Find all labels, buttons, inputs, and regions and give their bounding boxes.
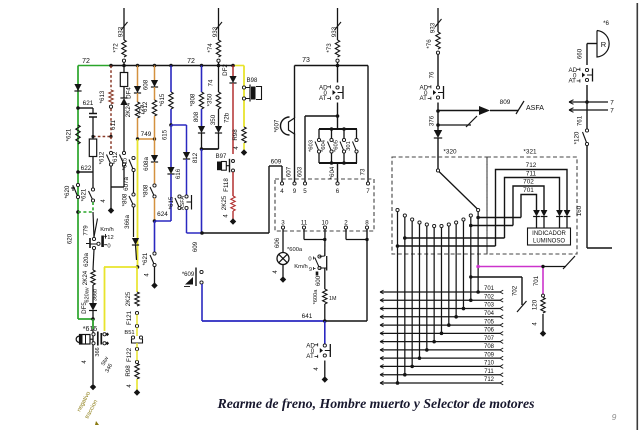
page border right edge xyxy=(636,3,638,430)
diode on 350 line xyxy=(215,126,222,133)
wire 712 loop xyxy=(496,170,568,247)
svg-text:F118: F118 xyxy=(223,178,230,192)
wire orange mid xyxy=(154,116,156,155)
svg-text:7: 7 xyxy=(610,100,614,107)
wire red 72b xyxy=(232,83,234,154)
svg-text:*621: *621 xyxy=(142,252,149,265)
relay contacts *603 *604 *605 301 xyxy=(318,129,320,139)
svg-text:ASFA: ASFA xyxy=(526,105,544,112)
svg-text:606: 606 xyxy=(274,237,281,248)
wire 8 down to 641 xyxy=(366,229,368,321)
wire orange to 624 xyxy=(154,198,156,221)
diode on 376 xyxy=(434,130,442,138)
svg-text:*603: *603 xyxy=(309,140,315,152)
wire 604 to terminal 6 xyxy=(337,163,339,182)
terminal 4 chain xyxy=(136,379,138,390)
svg-text:*74: *74 xyxy=(207,43,214,53)
svg-text:B51: B51 xyxy=(124,330,134,336)
terminal 5 xyxy=(303,182,306,185)
svg-text:R98: R98 xyxy=(232,129,239,141)
diode DF2 xyxy=(232,66,234,77)
svg-text:*350: *350 xyxy=(207,93,214,106)
svg-text:620: 620 xyxy=(67,233,74,244)
svg-text:301: 301 xyxy=(346,141,352,151)
svg-text:73: 73 xyxy=(360,168,367,175)
wire 660 xyxy=(587,43,597,45)
svg-text:622: 622 xyxy=(81,165,92,172)
svg-text:2K25: 2K25 xyxy=(125,291,132,306)
svg-text:616: 616 xyxy=(175,168,182,179)
contact *615 chain xyxy=(132,156,135,159)
wire below second *612 xyxy=(123,166,125,187)
svg-text:366: 366 xyxy=(95,347,101,356)
selector contact arc xyxy=(396,208,399,211)
wire 711 link xyxy=(405,237,505,239)
label 74 xyxy=(218,66,220,93)
svg-text:*612: *612 xyxy=(99,151,106,164)
box *321 dashed xyxy=(487,157,577,254)
contact *621 bottom xyxy=(153,252,156,255)
bell R xyxy=(597,31,609,58)
diode on 808 line xyxy=(198,126,205,133)
diode DF5 xyxy=(92,285,94,303)
diode DF4 up xyxy=(120,98,127,105)
svg-text:611: 611 xyxy=(110,120,117,130)
wire 621 branch xyxy=(78,107,93,109)
terminal 4 below lamp xyxy=(282,265,284,278)
node 621 xyxy=(76,106,80,110)
svg-text:707: 707 xyxy=(484,336,495,342)
svg-text:DF5: DF5 xyxy=(81,302,88,314)
svg-text:0: 0 xyxy=(107,243,110,249)
svg-text:*613: *613 xyxy=(99,90,106,103)
selector AD-0-AT asfa xyxy=(436,86,439,89)
svg-text:1M: 1M xyxy=(329,296,337,302)
svg-text:7: 7 xyxy=(610,108,614,115)
svg-text:701: 701 xyxy=(484,286,495,292)
svg-text:933: 933 xyxy=(430,22,437,33)
svg-text:609: 609 xyxy=(192,241,199,252)
svg-text:R: R xyxy=(601,40,607,49)
contact *120 xyxy=(585,129,588,132)
contact *612 second xyxy=(122,151,125,154)
wire 160 down xyxy=(586,146,588,249)
svg-text:2K24: 2K24 xyxy=(82,270,89,285)
wire blue B down xyxy=(186,210,188,234)
svg-text:712: 712 xyxy=(484,377,495,383)
wire green dashed below *621 xyxy=(92,202,94,212)
svg-text:DF4: DF4 xyxy=(126,87,133,99)
svg-text:Km/h: Km/h xyxy=(294,264,308,270)
svg-text:704: 704 xyxy=(484,311,495,317)
svg-text:615: 615 xyxy=(162,129,169,140)
svg-text:701: 701 xyxy=(523,187,534,194)
resistor 2K24 lower-left xyxy=(91,270,95,285)
svg-text:*6: *6 xyxy=(603,20,609,27)
terminal 4 xyxy=(280,182,283,185)
wire 712 link xyxy=(398,245,496,247)
diode 608 xyxy=(154,66,156,81)
svg-text:933: 933 xyxy=(331,26,338,37)
terminal 4 yellow xyxy=(243,143,245,150)
svg-text:603: 603 xyxy=(297,166,304,177)
wire *613 dashed brown xyxy=(110,66,112,91)
svg-text:*607: *607 xyxy=(274,119,281,132)
svg-text:*605: *605 xyxy=(334,140,340,152)
box *320 dashed xyxy=(392,157,487,254)
svg-text:F122: F122 xyxy=(126,347,133,362)
svg-text:*321: *321 xyxy=(523,149,537,156)
node 72 bus top xyxy=(78,65,111,67)
svg-text:B97: B97 xyxy=(216,154,227,160)
node 149 xyxy=(201,133,203,149)
svg-text:620av: 620av xyxy=(85,287,91,302)
diode on 366a chain xyxy=(132,238,139,245)
svg-text:2: 2 xyxy=(344,220,348,227)
wire yellow 366a vertical xyxy=(137,139,139,267)
selector AD-0-AT lower xyxy=(324,321,326,346)
svg-text:76: 76 xyxy=(429,71,436,78)
label 366a xyxy=(133,207,135,237)
wire orange to *808 contact xyxy=(154,162,156,184)
svg-text:*600a: *600a xyxy=(287,247,303,253)
svg-text:702: 702 xyxy=(512,285,519,296)
svg-text:73: 73 xyxy=(302,57,310,64)
svg-text:120: 120 xyxy=(532,299,539,310)
svg-text:*616: *616 xyxy=(83,326,98,333)
resistor *621 on green xyxy=(76,125,80,144)
wire black 702 branch xyxy=(471,276,522,278)
wire to node 7 lines xyxy=(586,85,588,129)
wire 701 link xyxy=(478,217,521,219)
wire 611 dashed xyxy=(110,109,112,137)
resistor *350 xyxy=(216,92,220,109)
wire 600 xyxy=(324,268,326,289)
resistor *76 riser 933 xyxy=(437,8,439,32)
svg-text:DF2: DF2 xyxy=(222,64,229,76)
wire orange to 749 node xyxy=(137,118,139,139)
svg-text:*620: *620 xyxy=(64,185,71,198)
node 624 xyxy=(153,219,157,223)
svg-text:609: 609 xyxy=(271,159,282,166)
resistor R98 yellow xyxy=(242,127,246,143)
svg-text:INDICADOR: INDICADOR xyxy=(532,231,566,237)
label 607a xyxy=(133,172,135,194)
selector wiper diagonal xyxy=(436,169,439,172)
svg-text:607a: 607a xyxy=(123,177,130,191)
resistor 2K24 72a xyxy=(137,93,139,102)
wire junction bar 187 xyxy=(111,186,124,188)
svg-text:0: 0 xyxy=(308,257,311,263)
contact *808 on orange xyxy=(153,184,156,187)
svg-text:11: 11 xyxy=(301,220,308,227)
svg-text:933: 933 xyxy=(212,26,219,37)
indicator luminoso box xyxy=(528,228,571,245)
svg-text:*621: *621 xyxy=(81,188,88,201)
svg-text:809: 809 xyxy=(500,99,511,106)
svg-text:*615: *615 xyxy=(159,93,166,106)
svg-text:3: 3 xyxy=(281,220,285,227)
node green join 616 xyxy=(78,318,93,320)
contact *612 first xyxy=(109,151,112,154)
contact *620 xyxy=(76,183,79,186)
contact *615 ASFA xyxy=(178,195,181,198)
diode on 137 line xyxy=(137,66,139,87)
node yellow 267 xyxy=(136,265,140,269)
terminal 4 magenta xyxy=(542,314,544,331)
lamp *600a xyxy=(277,253,289,265)
resistor *72 riser to 933 xyxy=(123,8,125,40)
svg-text:706: 706 xyxy=(484,328,495,334)
svg-text:*76: *76 xyxy=(426,39,433,49)
wire 337 down xyxy=(337,103,339,130)
relay bank top bar xyxy=(319,128,357,130)
wire yellow 641 area horizontal xyxy=(104,266,138,268)
wire red F118 xyxy=(232,172,234,196)
terminal 4 red xyxy=(232,211,234,219)
wire bar 149 to 218 xyxy=(202,148,219,150)
svg-text:710: 710 xyxy=(484,361,495,367)
resistor 2K25 on red xyxy=(231,196,235,211)
diode 616 xyxy=(183,152,190,159)
diode 608a xyxy=(151,155,158,162)
resistor *613 xyxy=(109,90,113,104)
resistor *612 on 608 line xyxy=(154,87,156,100)
svg-text:712: 712 xyxy=(526,162,537,169)
svg-text:*615: *615 xyxy=(168,196,175,209)
svg-text:701: 701 xyxy=(533,275,540,286)
node 233 xyxy=(200,231,204,235)
wire dashed to contact *612 xyxy=(110,137,112,152)
svg-text:*808: *808 xyxy=(122,193,129,206)
svg-text:366a: 366a xyxy=(124,215,131,229)
svg-text:160: 160 xyxy=(576,205,583,216)
node on green below *620 xyxy=(76,210,80,214)
svg-text:*808: *808 xyxy=(143,184,150,197)
diode on green line top xyxy=(74,84,81,91)
svg-text:*621: *621 xyxy=(66,128,73,141)
wire 603 down xyxy=(304,116,306,182)
wire blue down from 624 xyxy=(154,221,156,252)
svg-text:608: 608 xyxy=(143,79,150,90)
svg-text:2K24: 2K24 xyxy=(125,102,132,117)
resistor *74 riser to 933 xyxy=(218,8,220,40)
svg-text:*615: *615 xyxy=(122,157,129,170)
svg-text:2K25: 2K25 xyxy=(221,195,228,210)
svg-text:621: 621 xyxy=(83,100,94,107)
svg-text:808: 808 xyxy=(193,111,200,122)
svg-text:812: 812 xyxy=(192,152,199,163)
wire 10 down xyxy=(324,229,326,256)
wire to contact *612 second xyxy=(123,105,125,152)
svg-text:779: 779 xyxy=(83,225,90,236)
node 622 xyxy=(76,170,80,174)
wire black 233 to 609 corner xyxy=(202,232,269,234)
selector AD-0-AT right xyxy=(585,68,588,71)
svg-text:9: 9 xyxy=(309,267,312,273)
svg-text:7: 7 xyxy=(366,188,370,195)
node 749 xyxy=(138,138,155,140)
wire 73 to terminal 7 xyxy=(367,66,369,183)
svg-text:B98: B98 xyxy=(247,78,258,84)
svg-text:AT: AT xyxy=(319,95,327,102)
svg-text:*808: *808 xyxy=(190,93,197,106)
resistor R98 lower xyxy=(135,364,139,380)
svg-text:9: 9 xyxy=(612,412,617,422)
wire green dashed to *621 contact xyxy=(78,211,93,213)
wire yellow B98 xyxy=(243,66,245,128)
svg-text:LUMINOSO: LUMINOSO xyxy=(533,239,565,245)
svg-text:705: 705 xyxy=(484,319,495,325)
contact *808 chain xyxy=(132,193,135,196)
svg-text:5: 5 xyxy=(303,188,307,195)
diodes into indicator xyxy=(533,210,540,217)
terminal 4 bottom xyxy=(324,361,326,378)
svg-text:72b: 72b xyxy=(224,112,231,123)
svg-text:72: 72 xyxy=(82,58,90,65)
svg-text:608a: 608a xyxy=(143,157,150,171)
wire 2 jog xyxy=(345,229,347,240)
wire horizontal 125 xyxy=(171,124,187,126)
svg-text:620a: 620a xyxy=(83,253,90,267)
resistor *600a xyxy=(323,289,327,304)
svg-text:624: 624 xyxy=(157,211,168,218)
terminal 7 xyxy=(366,182,369,185)
svg-text:600: 600 xyxy=(315,275,322,286)
svg-text:AT: AT xyxy=(420,95,428,102)
svg-text:72: 72 xyxy=(187,58,195,65)
svg-text:702: 702 xyxy=(523,179,534,186)
wire 160 corner right xyxy=(587,247,612,249)
relay box dashed xyxy=(275,179,374,231)
wire 11 jog xyxy=(303,229,305,240)
svg-text:711: 711 xyxy=(484,369,494,375)
resistor box on 93 line xyxy=(89,139,96,157)
svg-text:749: 749 xyxy=(141,131,152,138)
svg-text:933: 933 xyxy=(118,26,125,37)
svg-text:9: 9 xyxy=(293,188,297,195)
node 73 bus xyxy=(295,65,369,67)
wire 606 lamp feed xyxy=(282,229,284,252)
terminal 4 below *621 xyxy=(154,267,156,284)
svg-text:*604: *604 xyxy=(329,166,336,179)
buzzer *607 xyxy=(294,66,296,119)
capacitor on 93 line xyxy=(92,108,94,113)
terminal 6 xyxy=(336,182,339,185)
svg-text:350: 350 xyxy=(210,114,217,125)
motor select lines 701-712 xyxy=(380,291,500,293)
svg-text:607: 607 xyxy=(286,166,293,177)
wire black stub with blade right xyxy=(543,266,566,268)
fuse F122 xyxy=(135,347,138,350)
wire 701 loop xyxy=(521,195,537,218)
svg-text:R98: R98 xyxy=(125,365,132,377)
node 641 bus xyxy=(202,320,326,322)
resistor box DF4 column xyxy=(120,73,127,87)
contact 779 xyxy=(93,212,94,238)
wire to sheet 7 upper xyxy=(569,101,608,103)
terminal 4 stub xyxy=(110,187,112,208)
svg-text:*120: *120 xyxy=(574,131,581,144)
terminal 9 xyxy=(293,182,296,185)
selector matrix verticals xyxy=(397,212,399,383)
contact *621 lower xyxy=(91,188,94,191)
svg-text:AT: AT xyxy=(569,78,577,85)
wire 702 loop xyxy=(513,186,544,226)
wire 702 link xyxy=(471,225,513,227)
svg-text:*600a: *600a xyxy=(313,289,319,305)
wire 607 down xyxy=(294,134,296,183)
resistor *73 riser 933 xyxy=(337,8,339,40)
svg-text:*72: *72 xyxy=(113,43,120,53)
wire dashed junction to 93 xyxy=(93,136,111,138)
wire 809 to ASFA xyxy=(438,110,479,112)
svg-text:12: 12 xyxy=(107,235,113,241)
node 116 branch xyxy=(336,114,340,118)
wire 622 branch xyxy=(78,171,93,173)
svg-text:6: 6 xyxy=(336,188,340,195)
wire 624 to blue A xyxy=(155,220,172,222)
diode on 171 blue xyxy=(170,125,172,167)
svg-text:10: 10 xyxy=(322,220,329,227)
wire 125 branch with blade xyxy=(438,124,471,126)
svg-text:Km/h: Km/h xyxy=(100,227,114,233)
contact *609 xyxy=(200,270,203,273)
svg-text:761: 761 xyxy=(577,115,584,126)
svg-text:F121: F121 xyxy=(126,310,133,325)
selector AD-0-AT upper xyxy=(337,66,339,83)
svg-text:AT: AT xyxy=(306,353,314,360)
svg-text:641: 641 xyxy=(302,313,313,320)
wire green 620 vertical xyxy=(77,66,79,320)
svg-text:*73: *73 xyxy=(326,43,333,53)
relay bank bottom bar xyxy=(319,162,357,164)
svg-text:ASFA: ASFA xyxy=(180,196,186,211)
wire yellow 366b down xyxy=(104,267,106,331)
svg-text:708: 708 xyxy=(484,344,495,350)
svg-text:703: 703 xyxy=(484,303,495,309)
chain 2K25 F121 B51 F122 R98 xyxy=(136,267,138,292)
svg-text:709: 709 xyxy=(484,352,495,358)
svg-text:*604: *604 xyxy=(321,139,327,152)
node 376 xyxy=(437,103,439,131)
svg-text:74: 74 xyxy=(208,79,215,86)
svg-text:702: 702 xyxy=(484,294,495,300)
svg-text:376: 376 xyxy=(429,115,436,126)
svg-text:660: 660 xyxy=(577,48,584,59)
svg-text:8: 8 xyxy=(365,220,369,227)
svg-text:*609: *609 xyxy=(182,272,195,278)
svg-text:4: 4 xyxy=(280,188,284,195)
wire below *612 xyxy=(110,166,112,187)
resistor *808 top xyxy=(201,66,203,93)
svg-text:*320: *320 xyxy=(443,149,457,156)
svg-text:*612: *612 xyxy=(112,151,119,164)
wire blue 812 down xyxy=(201,149,203,233)
wire blue 616 branch xyxy=(186,125,188,152)
svg-text:Rearme de freno, Hombre muerto: Rearme de freno, Hombre muerto y Selecto… xyxy=(217,396,535,411)
terminal diamond negative xyxy=(90,384,96,390)
wire to sheet 7 lower xyxy=(569,109,608,111)
wire blue 609 to 641 xyxy=(201,284,203,321)
svg-text:711: 711 xyxy=(526,171,537,178)
resistor *615 xyxy=(170,66,172,93)
svg-text:*612: *612 xyxy=(142,101,149,114)
node 125 junction xyxy=(169,123,173,127)
wire magenta 701 xyxy=(478,266,543,268)
wire 711 loop xyxy=(505,178,560,239)
resistor 120 xyxy=(541,298,545,314)
